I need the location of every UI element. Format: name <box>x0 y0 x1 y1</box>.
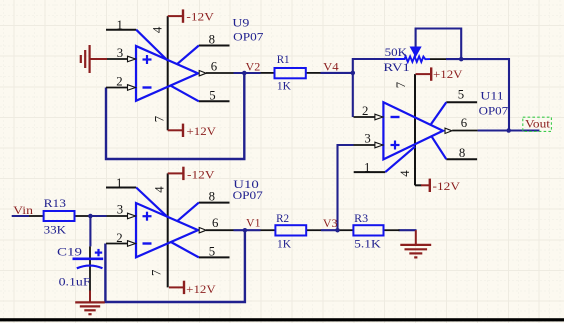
svg-text:6: 6 <box>211 60 218 74</box>
svg-text:+12V: +12V <box>433 67 463 81</box>
svg-text:R13: R13 <box>44 196 66 210</box>
svg-text:0.1uF: 0.1uF <box>59 275 91 289</box>
svg-text:50K: 50K <box>385 45 408 59</box>
svg-text:V2: V2 <box>246 60 261 74</box>
svg-text:+12V: +12V <box>186 282 216 296</box>
svg-text:7: 7 <box>150 269 164 276</box>
svg-text:OP07: OP07 <box>233 188 263 202</box>
svg-text:6: 6 <box>212 216 219 230</box>
svg-text:4: 4 <box>153 186 167 193</box>
svg-text:5: 5 <box>209 244 215 258</box>
svg-text:R1: R1 <box>277 52 290 66</box>
svg-text:5: 5 <box>209 88 215 102</box>
svg-text:2: 2 <box>116 75 122 89</box>
svg-text:3: 3 <box>364 131 370 145</box>
svg-text:8: 8 <box>209 33 215 47</box>
svg-text:3: 3 <box>117 202 123 216</box>
svg-text:5: 5 <box>458 87 464 101</box>
svg-text:Vin: Vin <box>13 203 33 217</box>
svg-text:-12V: -12V <box>187 167 215 181</box>
svg-text:6: 6 <box>461 116 468 130</box>
svg-text:R3: R3 <box>354 211 368 225</box>
svg-text:1: 1 <box>117 18 123 32</box>
svg-text:V1: V1 <box>246 216 261 230</box>
svg-text:+12V: +12V <box>187 124 217 138</box>
svg-text:V3: V3 <box>323 216 338 230</box>
svg-text:U11: U11 <box>480 89 503 103</box>
svg-text:7: 7 <box>153 115 167 122</box>
svg-text:OP07: OP07 <box>233 30 263 44</box>
svg-text:R2: R2 <box>276 211 289 225</box>
svg-text:4: 4 <box>398 170 412 177</box>
svg-text:V4: V4 <box>323 60 339 74</box>
svg-text:2: 2 <box>116 231 122 245</box>
svg-text:Vout: Vout <box>525 117 551 131</box>
svg-text:5.1K: 5.1K <box>354 237 381 251</box>
svg-text:RV1: RV1 <box>383 60 410 74</box>
svg-text:33K: 33K <box>44 222 67 236</box>
svg-text:4: 4 <box>151 26 165 33</box>
svg-text:C19: C19 <box>57 245 82 259</box>
svg-text:1: 1 <box>116 176 122 190</box>
svg-text:8: 8 <box>209 189 215 203</box>
svg-text:1K: 1K <box>277 79 291 93</box>
svg-text:-12V: -12V <box>186 10 214 24</box>
svg-text:3: 3 <box>117 46 123 60</box>
svg-text:U9: U9 <box>232 16 249 30</box>
svg-text:1: 1 <box>364 161 370 175</box>
svg-text:8: 8 <box>459 146 465 160</box>
svg-text:7: 7 <box>394 81 408 88</box>
svg-text:1K: 1K <box>277 237 291 251</box>
svg-text:-12V: -12V <box>433 179 461 193</box>
svg-text:2: 2 <box>362 104 368 118</box>
svg-text:OP07: OP07 <box>479 104 509 118</box>
